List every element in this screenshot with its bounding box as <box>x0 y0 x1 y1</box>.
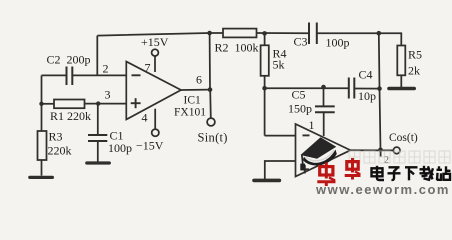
resistor R4 <box>261 45 269 76</box>
node junction C4 right <box>377 86 382 91</box>
wire R2 to R4 node <box>257 32 309 34</box>
wire pin2 riser <box>96 36 98 76</box>
svg-text:C2 200p: C2 200p <box>47 53 91 67</box>
watermark black text xia <box>405 167 418 180</box>
svg-text:www.eeworm.com: www.eeworm.com <box>315 182 450 197</box>
op-amp U2 <box>296 124 351 177</box>
node junction left R1 <box>39 102 43 106</box>
node junction U2 output <box>378 148 383 153</box>
ground R5 <box>389 87 414 91</box>
watermark red bug char 2 <box>345 158 361 180</box>
wire op2 minus input <box>265 135 296 137</box>
wire R5 to ground <box>400 75 402 87</box>
svg-text:C5: C5 <box>292 88 306 102</box>
svg-text:IC1: IC1 <box>184 95 202 107</box>
node junction C3 right <box>377 31 382 36</box>
wire R1 left <box>42 103 55 105</box>
watermark black text zhan <box>437 166 451 180</box>
svg-text:6: 6 <box>196 73 202 87</box>
svg-text:R5: R5 <box>408 48 422 62</box>
svg-text:Cos(t): Cos(t) <box>389 132 418 144</box>
wire top feedback <box>97 33 223 36</box>
node junction R4 top <box>262 31 267 36</box>
IC1 minus sign <box>132 74 141 76</box>
IC1 plus sign <box>131 98 141 108</box>
U2 plus sign <box>301 165 309 173</box>
svg-text:100p: 100p <box>108 141 132 155</box>
ground op2 plus <box>254 179 279 183</box>
svg-text:2: 2 <box>103 62 109 76</box>
watermark black text zi <box>388 167 401 180</box>
resistor R1 <box>54 100 85 109</box>
capacitor C2 <box>67 67 73 86</box>
svg-text:R2 100k: R2 100k <box>215 41 259 55</box>
node junction IC1 output <box>208 87 213 92</box>
svg-text:220k: 220k <box>48 144 72 158</box>
wire mid horizontal to C4 <box>265 87 349 89</box>
watermark black text zai <box>420 166 434 180</box>
capacitor C5 <box>315 106 335 112</box>
ground C1 <box>87 161 110 164</box>
svg-text:10p: 10p <box>358 89 376 103</box>
wire C2 left <box>42 74 66 76</box>
wire C1 to ground <box>97 141 99 162</box>
node junction top feedback <box>207 31 212 36</box>
wire R4 top <box>264 33 266 45</box>
terminal Cos(t) <box>393 147 400 154</box>
svg-text:R1 220k: R1 220k <box>50 109 91 123</box>
wire op2 plus input <box>265 161 296 180</box>
wire C2 to pin2 <box>73 74 127 76</box>
svg-text:1: 1 <box>309 118 315 132</box>
terminal Sin(t) <box>207 118 215 126</box>
svg-text:FX101: FX101 <box>174 107 206 119</box>
wire node-A left vertical <box>41 75 43 131</box>
wire C4 to right vertical <box>355 88 380 90</box>
svg-text:Sin(t): Sin(t) <box>198 131 228 145</box>
wire R1 to pin3 <box>85 103 127 105</box>
svg-text:7: 7 <box>145 61 151 75</box>
ground R3 <box>30 176 53 179</box>
svg-text:C3: C3 <box>294 35 308 49</box>
svg-text:5k: 5k <box>273 58 285 72</box>
wire C1 riser <box>97 104 99 135</box>
watermark black text dian <box>372 166 385 180</box>
U2 minus sign <box>303 134 310 136</box>
resistor R3 <box>38 131 47 160</box>
wire IC1 output <box>181 89 210 91</box>
svg-text:4: 4 <box>142 111 148 125</box>
svg-text:150p: 150p <box>288 102 312 116</box>
wire op2 minus vertical <box>264 88 266 135</box>
svg-text:100p: 100p <box>326 36 350 50</box>
resistor R2 <box>223 29 257 38</box>
wire output riser up <box>209 33 211 90</box>
terminal +15V <box>152 49 159 56</box>
svg-text:R3: R3 <box>49 130 63 144</box>
svg-text:−15V: −15V <box>136 139 164 153</box>
svg-text:C4: C4 <box>359 68 373 82</box>
wire pin7 <box>154 56 156 72</box>
terminal -15V <box>152 129 159 136</box>
wire C3 to R5 corner <box>318 33 402 45</box>
wire U2 output <box>351 149 394 151</box>
wire C5 to op-amp edge <box>323 112 325 136</box>
capacitor C3 <box>309 23 317 45</box>
capacitor C1 <box>88 135 107 141</box>
wire pin4 <box>154 109 156 129</box>
resistor R5 <box>397 46 405 76</box>
watermark red bug char 1 <box>317 163 335 187</box>
watermark graduation cap <box>300 137 337 170</box>
svg-text:2k: 2k <box>408 64 420 78</box>
svg-text:3: 3 <box>105 88 111 102</box>
op-amp IC1 <box>126 62 181 120</box>
node junction R4 bottom <box>262 86 267 91</box>
wire R3 to ground <box>41 160 43 176</box>
wire U2 pin2 stub <box>380 150 382 157</box>
wire R4 bottom <box>264 76 266 88</box>
watermark faint gray characters row <box>349 151 450 163</box>
wire right vertical <box>379 33 381 150</box>
capacitor C4 <box>349 78 355 99</box>
wire C5 drop <box>323 88 325 106</box>
node junction pin3 <box>96 101 100 105</box>
wire output to Sin terminal <box>209 90 212 118</box>
svg-text:+15V: +15V <box>141 35 169 49</box>
node junction C5 top <box>321 85 326 90</box>
